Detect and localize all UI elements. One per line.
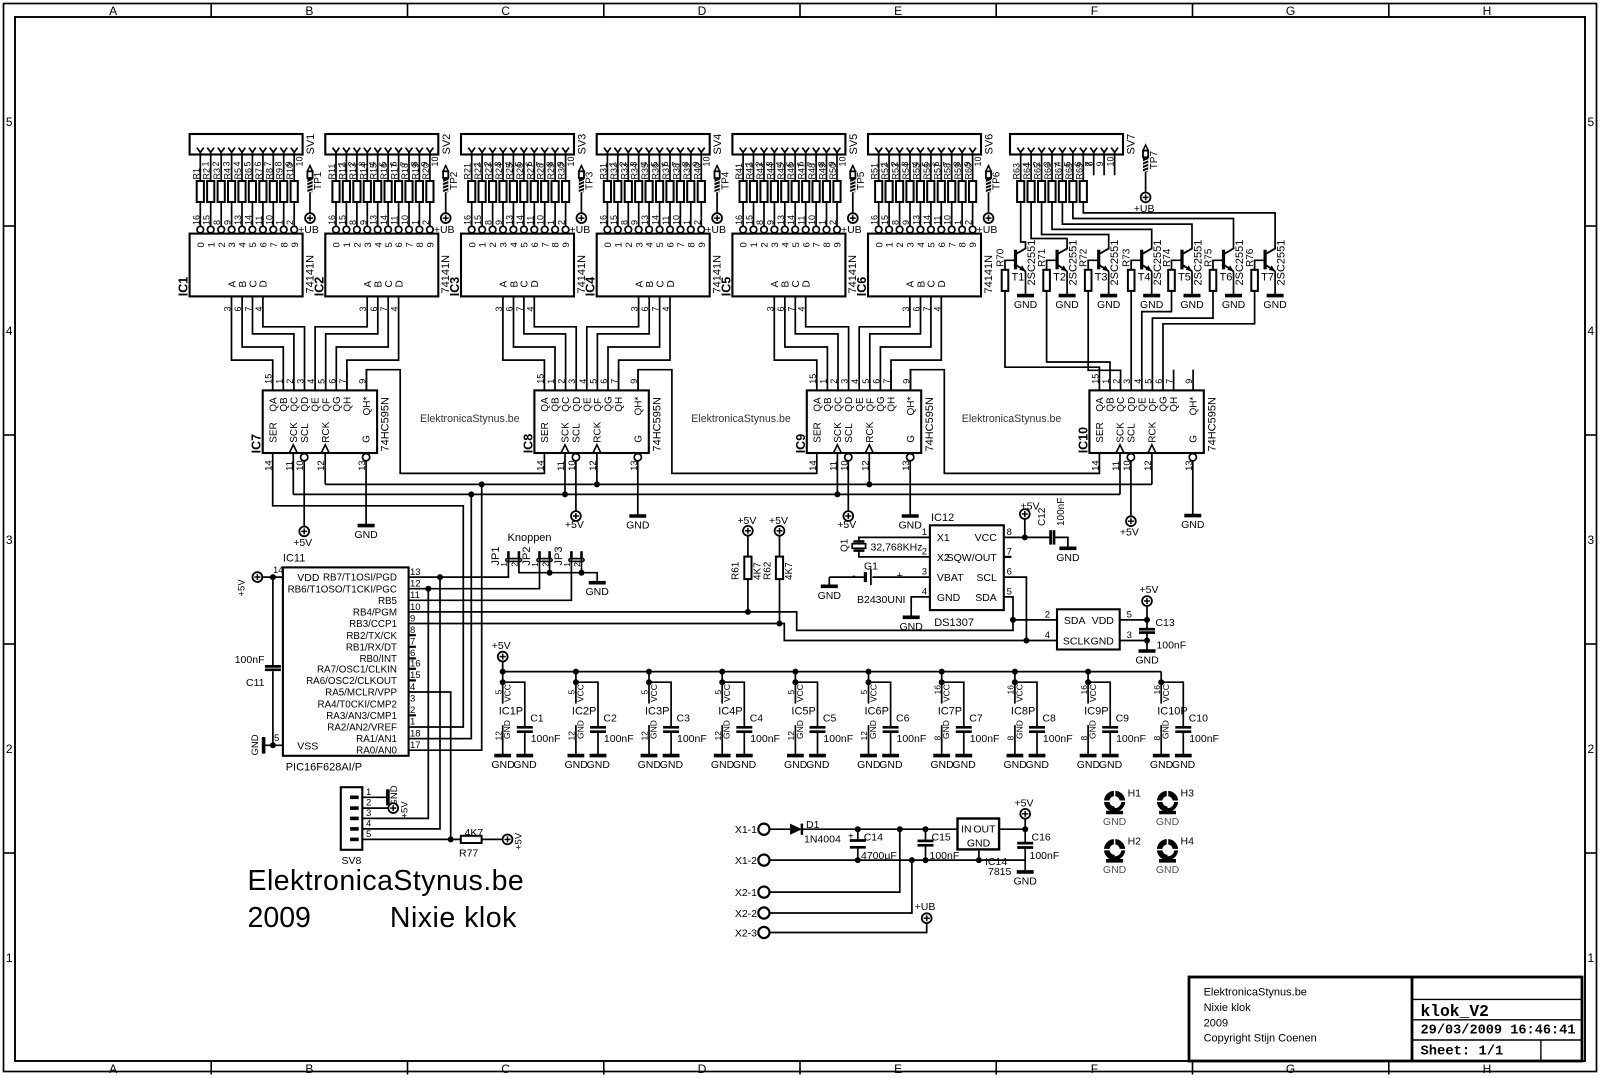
svg-text:GND: GND xyxy=(575,720,585,739)
wire (SCK bus to IC11 RA1) xyxy=(409,494,472,738)
svg-text:2: 2 xyxy=(828,220,838,225)
junction xyxy=(855,826,861,832)
wire xyxy=(870,296,921,390)
svg-text:T2: T2 xyxy=(1053,272,1066,284)
svg-text:8: 8 xyxy=(551,242,562,247)
wire xyxy=(231,202,233,226)
svg-text:100nF: 100nF xyxy=(235,654,265,666)
junction xyxy=(1022,534,1028,540)
capacitor C3 100nF xyxy=(649,682,707,755)
svg-text:SCL: SCL xyxy=(976,572,997,584)
svg-text:GND: GND xyxy=(941,720,951,739)
pin 7 of SV4 xyxy=(667,148,681,167)
ground xyxy=(818,586,842,602)
svg-text:R6: R6 xyxy=(243,168,253,180)
svg-text:100nF: 100nF xyxy=(970,733,1000,745)
svg-text:X2-2: X2-2 xyxy=(735,908,757,920)
terminal X1-2 xyxy=(735,855,770,867)
wire xyxy=(283,202,285,226)
wire xyxy=(523,202,525,226)
svg-text:R7: R7 xyxy=(254,168,264,180)
svg-text:12: 12 xyxy=(410,579,421,590)
wire (R74 to IC10) xyxy=(1142,291,1172,391)
svg-text:QB: QB xyxy=(1106,397,1117,412)
pin 8 of IC1 xyxy=(212,220,224,233)
svg-text:18: 18 xyxy=(410,728,421,739)
+UB supply symbol xyxy=(915,901,936,923)
wire xyxy=(911,597,930,617)
IC4P power pins xyxy=(713,669,743,756)
svg-text:1: 1 xyxy=(546,379,556,384)
pin 8 of IC5 xyxy=(755,220,767,233)
wire xyxy=(679,152,681,181)
svg-text:RCK: RCK xyxy=(865,421,876,442)
svg-text:5: 5 xyxy=(655,242,666,247)
svg-text:RCK: RCK xyxy=(593,421,604,442)
svg-text:IC12: IC12 xyxy=(931,512,954,524)
pin 7 of IC8 xyxy=(610,379,620,384)
pin 10 of IC10 xyxy=(1122,460,1133,471)
wire xyxy=(220,202,222,226)
inversion bubble SCL IC9 xyxy=(845,454,852,461)
pin 6 of SV7 xyxy=(1070,148,1084,167)
svg-text:3: 3 xyxy=(840,379,850,384)
pin 13 of IC2 xyxy=(369,215,381,233)
wire xyxy=(951,152,953,181)
svg-text:10: 10 xyxy=(400,215,410,225)
pin 13 of IC6 xyxy=(911,215,923,233)
pin 14 of IC6 xyxy=(922,215,934,233)
svg-text:8: 8 xyxy=(274,161,284,166)
svg-text:100nF: 100nF xyxy=(1056,498,1067,526)
svg-text:2SC2551: 2SC2551 xyxy=(1192,240,1204,286)
resistor R11 xyxy=(327,164,340,202)
svg-text:0: 0 xyxy=(332,242,343,247)
wire xyxy=(220,152,222,181)
svg-text:QD: QD xyxy=(572,397,583,412)
svg-text:4: 4 xyxy=(850,379,860,384)
wire xyxy=(503,296,545,390)
svg-text:100nF: 100nF xyxy=(1156,640,1186,652)
pin 13 of IC9 xyxy=(901,460,912,471)
wire xyxy=(826,152,828,181)
svg-text:IC4P: IC4P xyxy=(718,706,742,718)
wire xyxy=(1054,537,1068,548)
svg-text:GND: GND xyxy=(784,759,808,771)
resistor R20 xyxy=(421,163,434,202)
wire (SDA to connector pin2) xyxy=(1013,619,1057,621)
wire xyxy=(471,202,473,226)
wire xyxy=(1088,260,1099,270)
svg-text:B: B xyxy=(645,281,656,288)
wire xyxy=(1041,152,1043,181)
pin 1 of IC8 xyxy=(546,379,556,384)
wire xyxy=(445,192,447,213)
svg-text:GND: GND xyxy=(733,759,757,771)
wire xyxy=(251,202,253,226)
svg-text:R44: R44 xyxy=(765,163,775,180)
svg-text:13: 13 xyxy=(776,215,786,225)
svg-text:QD: QD xyxy=(844,397,855,412)
svg-text:GND: GND xyxy=(354,529,378,541)
svg-text:RA5/MCLR/VPP: RA5/MCLR/VPP xyxy=(325,688,397,699)
pin 9 of SV3 xyxy=(552,148,566,167)
resistor R7 xyxy=(254,168,267,202)
wire xyxy=(836,453,838,494)
resistor R2 xyxy=(202,168,215,202)
IC10 74HC595N shift register xyxy=(1076,390,1218,453)
wire xyxy=(471,152,473,181)
svg-text:A: A xyxy=(109,4,117,18)
terminal X1-1 xyxy=(735,824,770,836)
resistor R49 xyxy=(818,163,831,202)
svg-text:11: 11 xyxy=(390,216,400,225)
ground xyxy=(1135,651,1159,667)
svg-text:B: B xyxy=(238,281,249,288)
pin 8 of SV6 xyxy=(948,148,962,167)
pin 6 of SV3 xyxy=(521,148,535,167)
svg-text:R30: R30 xyxy=(557,163,567,180)
svg-text:74HC595N: 74HC595N xyxy=(651,397,663,451)
svg-text:GND: GND xyxy=(587,759,611,771)
svg-text:100nF: 100nF xyxy=(823,733,853,745)
svg-text:QC: QC xyxy=(834,397,845,412)
svg-text:IC5P: IC5P xyxy=(791,706,815,718)
svg-text:10: 10 xyxy=(295,156,305,166)
svg-text:SV7: SV7 xyxy=(1126,134,1138,155)
pin 10 of IC1 xyxy=(264,215,276,233)
svg-text:TP3: TP3 xyxy=(585,171,596,190)
+5V supply symbol xyxy=(293,527,312,549)
pin 1 of SV1 xyxy=(197,148,211,167)
svg-text:4K7: 4K7 xyxy=(784,562,795,580)
ground xyxy=(388,785,400,806)
svg-text:GND: GND xyxy=(250,734,261,755)
svg-text:2: 2 xyxy=(217,242,228,247)
wire xyxy=(618,370,620,391)
svg-text:H: H xyxy=(1483,4,1492,18)
svg-text:GND: GND xyxy=(899,520,923,532)
svg-text:SDA: SDA xyxy=(1064,615,1086,627)
wire xyxy=(815,152,817,181)
pin 3 of SV2 xyxy=(354,148,368,167)
svg-text:QG: QG xyxy=(876,396,887,412)
wire xyxy=(345,152,347,181)
svg-text:D: D xyxy=(666,280,677,287)
svg-text:6: 6 xyxy=(599,379,609,384)
pin 10 of SV4 xyxy=(698,148,712,167)
pin 9 of IC2 xyxy=(358,220,370,233)
IC2 74141N nixie driver xyxy=(312,234,452,297)
wire (IC7 SER to IC11 RA2) xyxy=(273,453,464,727)
svg-text:8: 8 xyxy=(279,242,290,247)
svg-text:VCC: VCC xyxy=(1161,684,1171,702)
pin 5 of IC8 xyxy=(588,379,598,384)
svg-text:2: 2 xyxy=(285,379,295,384)
svg-text:8: 8 xyxy=(822,242,833,247)
svg-text:7: 7 xyxy=(1007,546,1012,557)
svg-text:GND: GND xyxy=(1161,720,1171,739)
svg-text:9: 9 xyxy=(223,220,233,225)
IC1P power pins xyxy=(493,669,523,756)
junction xyxy=(425,586,431,592)
svg-text:D: D xyxy=(530,280,541,287)
wire xyxy=(263,296,305,390)
svg-text:10: 10 xyxy=(943,215,953,225)
pin 2 of SV2 xyxy=(343,148,357,167)
wire xyxy=(418,202,420,226)
svg-text:15: 15 xyxy=(808,374,818,384)
pin 16 of IC2 xyxy=(327,215,339,233)
svg-text:0: 0 xyxy=(874,242,885,247)
pin 7 of SV1 xyxy=(260,148,274,167)
svg-text:15: 15 xyxy=(1090,374,1100,384)
pin 1 of IC5 xyxy=(818,220,830,233)
svg-text:G: G xyxy=(633,435,644,443)
wire xyxy=(785,296,828,390)
svg-text:RB2/TX/CK: RB2/TX/CK xyxy=(346,631,397,642)
svg-text:X2-1: X2-1 xyxy=(735,887,757,899)
ground xyxy=(733,756,757,771)
svg-text:R63: R63 xyxy=(1012,163,1022,180)
ground xyxy=(1077,756,1101,771)
svg-text:QB: QB xyxy=(279,397,290,412)
connector SV8 xyxy=(341,787,371,867)
inversion bubble SCL IC8 xyxy=(572,454,579,461)
svg-text:100nF: 100nF xyxy=(677,733,707,745)
pin 14 of IC10 xyxy=(1090,460,1101,471)
IC7 74HC595N shift register xyxy=(250,390,392,453)
pin 3 of SV3 xyxy=(489,148,503,167)
wire (R73 to IC10) xyxy=(1130,291,1132,391)
svg-text:74HC595N: 74HC595N xyxy=(924,397,936,451)
svg-text:RA4/T0CKI/CMP2: RA4/T0CKI/CMP2 xyxy=(318,699,398,710)
pin 5 of SV4 xyxy=(646,148,660,167)
pin 4 of IC10 xyxy=(1133,379,1143,384)
svg-text:14: 14 xyxy=(515,215,525,225)
svg-text:10: 10 xyxy=(837,156,847,166)
svg-text:4: 4 xyxy=(922,586,927,597)
svg-text:100nF: 100nF xyxy=(1030,850,1060,862)
svg-text:R4: R4 xyxy=(223,168,233,180)
wire xyxy=(429,202,431,226)
pin 9 of IC3 xyxy=(494,220,506,233)
pin 14 of IC4 xyxy=(651,215,663,233)
wire (IC9 QH* to IC10 SER) xyxy=(911,370,1100,474)
svg-text:R17: R17 xyxy=(390,163,400,180)
svg-text:Sheet: 1/1: Sheet: 1/1 xyxy=(1421,1044,1504,1060)
svg-text:+UB: +UB xyxy=(570,224,591,236)
svg-text:SV5: SV5 xyxy=(848,134,860,155)
svg-text:11: 11 xyxy=(410,590,420,601)
pin 9 of IC1 xyxy=(223,220,235,233)
wire xyxy=(1030,152,1032,181)
svg-text:7: 7 xyxy=(269,242,280,247)
wire xyxy=(398,202,400,226)
pin 9 of IC6 xyxy=(901,220,913,233)
ground xyxy=(784,756,808,771)
wire xyxy=(492,202,494,226)
svg-text:15: 15 xyxy=(264,374,274,384)
pin 10 of SV7 xyxy=(1106,148,1118,167)
svg-text:R50: R50 xyxy=(828,163,838,180)
svg-text:QA: QA xyxy=(1095,397,1106,412)
svg-text:H4: H4 xyxy=(1181,836,1195,848)
resistor R51 xyxy=(870,163,883,202)
svg-text:VCC: VCC xyxy=(649,684,659,702)
svg-text:R55: R55 xyxy=(911,163,921,180)
svg-text:C: C xyxy=(384,280,395,287)
wire xyxy=(638,152,640,181)
svg-text:9: 9 xyxy=(765,220,775,225)
pin 4 of SV1 xyxy=(228,148,242,167)
resistor R48 xyxy=(807,163,820,202)
svg-text:IC2P: IC2P xyxy=(572,706,596,718)
svg-text:3: 3 xyxy=(1127,630,1132,641)
svg-text:R11: R11 xyxy=(327,164,337,180)
wire (D1 to 7815 IN) xyxy=(802,828,958,830)
wire xyxy=(836,152,838,181)
wire xyxy=(1020,152,1022,181)
wire xyxy=(1119,453,1121,494)
wire (X2-3 to +UB) xyxy=(770,923,927,933)
svg-text:RB5: RB5 xyxy=(378,596,398,607)
wire xyxy=(345,202,347,226)
ground xyxy=(930,756,954,771)
svg-text:QG: QG xyxy=(604,396,615,412)
svg-text:RCK: RCK xyxy=(1148,421,1159,442)
svg-text:IC6P: IC6P xyxy=(865,706,889,718)
terminal X2-3 xyxy=(735,927,770,939)
pin 13 of IC1 xyxy=(233,215,245,233)
svg-text:5: 5 xyxy=(927,242,938,247)
svg-text:D: D xyxy=(394,280,405,287)
pin 13 of IC5 xyxy=(776,215,788,233)
svg-text:B2430UNI: B2430UNI xyxy=(857,594,905,606)
+5V supply symbol xyxy=(565,511,584,531)
svg-text:SV3: SV3 xyxy=(577,134,589,155)
wire xyxy=(1108,271,1110,295)
resistor R62 4K7 xyxy=(762,557,795,580)
resistor R3 xyxy=(212,168,225,202)
wire xyxy=(429,152,431,181)
pin 3 of SV1 xyxy=(218,148,232,167)
svg-text:2SC2551: 2SC2551 xyxy=(1275,240,1287,286)
svg-text:R49: R49 xyxy=(818,163,828,180)
svg-text:C: C xyxy=(248,280,259,287)
svg-text:4: 4 xyxy=(306,379,316,384)
svg-text:4: 4 xyxy=(366,818,371,829)
resistor R1 xyxy=(191,168,204,202)
wire (R75 to IC10) xyxy=(1152,291,1213,391)
pin 2 of IC9 xyxy=(829,379,839,384)
svg-text:5: 5 xyxy=(6,115,13,129)
svg-text:QF: QF xyxy=(1148,398,1159,412)
ground xyxy=(626,516,650,532)
resistor R58 xyxy=(943,163,956,202)
resistor R23 xyxy=(484,163,497,202)
resistor R74 xyxy=(1162,248,1175,291)
wire xyxy=(1024,819,1026,830)
wire (R63 to T1 collector) xyxy=(1021,202,1026,249)
svg-text:R72: R72 xyxy=(1079,248,1090,267)
wire xyxy=(241,202,243,226)
wire xyxy=(627,202,629,226)
resistor R12 xyxy=(337,163,350,202)
svg-text:13: 13 xyxy=(911,215,921,225)
svg-text:GND: GND xyxy=(937,592,961,604)
svg-text:IC6: IC6 xyxy=(855,277,869,297)
wire xyxy=(1082,152,1084,181)
pin 6 of SV1 xyxy=(249,148,263,167)
pin 7 of IC10 xyxy=(1165,379,1175,384)
pin 13 of IC4 xyxy=(640,215,652,233)
svg-text:100nF: 100nF xyxy=(1189,733,1219,745)
+UB supply symbol xyxy=(298,213,319,236)
svg-text:+5V: +5V xyxy=(837,519,856,531)
svg-text:SER: SER xyxy=(812,422,823,443)
svg-text:C11: C11 xyxy=(246,677,265,689)
pin 2 of IC3 xyxy=(557,220,569,233)
svg-text:RA6/OSC2/CLKOUT: RA6/OSC2/CLKOUT xyxy=(306,676,397,687)
ground xyxy=(1103,813,1127,828)
svg-text:10: 10 xyxy=(973,156,983,166)
svg-text:3: 3 xyxy=(296,379,306,384)
wire (RCK bus) xyxy=(325,483,1152,485)
svg-text:7: 7 xyxy=(947,242,958,247)
pin 15 of IC4 xyxy=(609,215,621,233)
pin 14 of IC9 xyxy=(808,460,819,471)
junction xyxy=(479,481,485,487)
svg-text:VCC: VCC xyxy=(942,684,952,702)
battery G1 B2430UNI xyxy=(852,561,905,607)
svg-text:0: 0 xyxy=(196,242,207,247)
svg-text:R45: R45 xyxy=(776,163,786,180)
svg-text:ElektronicaStynus.be: ElektronicaStynus.be xyxy=(962,413,1062,425)
svg-text:GND: GND xyxy=(1140,299,1164,311)
IC4 74141N nixie driver xyxy=(584,234,724,297)
svg-text:GND: GND xyxy=(1056,552,1080,564)
wire (R65 to T3 collector) xyxy=(1042,202,1109,249)
svg-text:A: A xyxy=(227,281,238,288)
svg-text:R15: R15 xyxy=(369,163,379,180)
pin 1 of IC1 xyxy=(275,220,287,233)
pin 11 of IC2 xyxy=(390,216,402,233)
svg-text:IC9: IC9 xyxy=(794,434,808,454)
IC9P power pins xyxy=(1079,669,1109,756)
pin 5 of SV1 xyxy=(239,148,253,167)
wire xyxy=(910,370,912,391)
svg-text:klok_V2: klok_V2 xyxy=(1421,1002,1489,1021)
ground xyxy=(1180,296,1204,312)
IC2P power pins xyxy=(567,669,597,756)
pin 13 of IC7 xyxy=(357,460,368,471)
ground xyxy=(638,756,662,771)
pin 9 of SV5 xyxy=(823,148,837,167)
wire xyxy=(763,152,765,181)
svg-text:+UB: +UB xyxy=(434,224,455,236)
wire xyxy=(1005,260,1016,270)
wire xyxy=(930,152,932,181)
svg-text:R42: R42 xyxy=(745,163,755,180)
svg-text:100nF: 100nF xyxy=(1043,733,1073,745)
svg-text:R71: R71 xyxy=(1037,248,1048,267)
svg-text:15: 15 xyxy=(609,215,619,225)
wire xyxy=(1255,260,1266,270)
svg-text:RA3/AN3/CMP1: RA3/AN3/CMP1 xyxy=(326,711,397,722)
svg-text:GND: GND xyxy=(660,759,684,771)
svg-text:GND: GND xyxy=(967,838,991,850)
